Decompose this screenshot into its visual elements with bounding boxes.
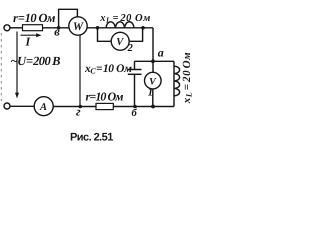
capacitor C1 bottom lead — [134, 75, 136, 107]
junction dot right of L1 — [141, 26, 145, 30]
capacitor C1 top lead — [134, 61, 136, 69]
svg-text:~U = 200 В: ~U = 200 В — [11, 54, 61, 68]
voltmeter V1 bottom lead — [152, 89, 154, 107]
wire W to inductor L1 — [87, 27, 153, 29]
terminal bottom-left — [4, 103, 10, 109]
inductor L1 humps — [106, 22, 134, 28]
junction dot V1 bottom — [151, 105, 155, 109]
wire corner down to node a — [152, 28, 154, 62]
node в junction dot — [57, 26, 61, 30]
current arrow I — [21, 34, 39, 36]
scan edge artifact line — [0, 33, 2, 101]
svg-text:xL = 20 Ом: xL = 20 Ом — [99, 13, 150, 25]
svg-text:W: W — [73, 21, 84, 33]
wire terminal to resistor R1 — [10, 27, 23, 29]
capacitor C1 plates — [128, 69, 142, 71]
svg-text:a: a — [158, 45, 164, 59]
inductor L2 humps — [174, 66, 180, 96]
terminal top-left — [4, 25, 10, 31]
op W: wattmeter U1 circle — [69, 17, 87, 35]
wire terminal to ammeter — [10, 105, 34, 107]
wattmeter current-coil loop wire — [59, 9, 78, 27]
resistor R2 — [96, 103, 113, 109]
svg-text:г: г — [76, 105, 81, 119]
svg-text:Рис. 2.51: Рис. 2.51 — [70, 131, 113, 143]
resistor R1 — [23, 25, 43, 31]
svg-text:r = 10 Ом: r = 10 Ом — [86, 89, 124, 103]
svg-text:V: V — [116, 37, 124, 48]
voltmeter V1 — [145, 72, 162, 89]
ammeter A1 — [34, 97, 53, 116]
bottom wire — [53, 106, 174, 108]
node a junction dot — [151, 59, 155, 63]
voltmeter V2 loop left wire — [98, 28, 112, 42]
svg-text:2: 2 — [127, 43, 134, 54]
voltage arrow U — [16, 32, 18, 95]
wire R1 to W — [43, 27, 70, 29]
junction dot left of L1 — [96, 26, 100, 30]
voltmeter V2 loop right wire — [129, 28, 142, 41]
voltmeter V1 top lead — [152, 61, 154, 72]
node б junction dot — [133, 105, 137, 109]
svg-text:б: б — [132, 108, 138, 119]
svg-text:r = 10 Ом: r = 10 Ом — [13, 11, 56, 25]
svg-text:A: A — [39, 102, 47, 113]
node г junction dot — [79, 105, 83, 109]
wire node a horizontal — [135, 60, 175, 62]
inductor L2 branch wire — [173, 61, 175, 106]
wattmeter voltage-coil wire down — [79, 35, 81, 107]
voltmeter V2 — [111, 32, 129, 50]
